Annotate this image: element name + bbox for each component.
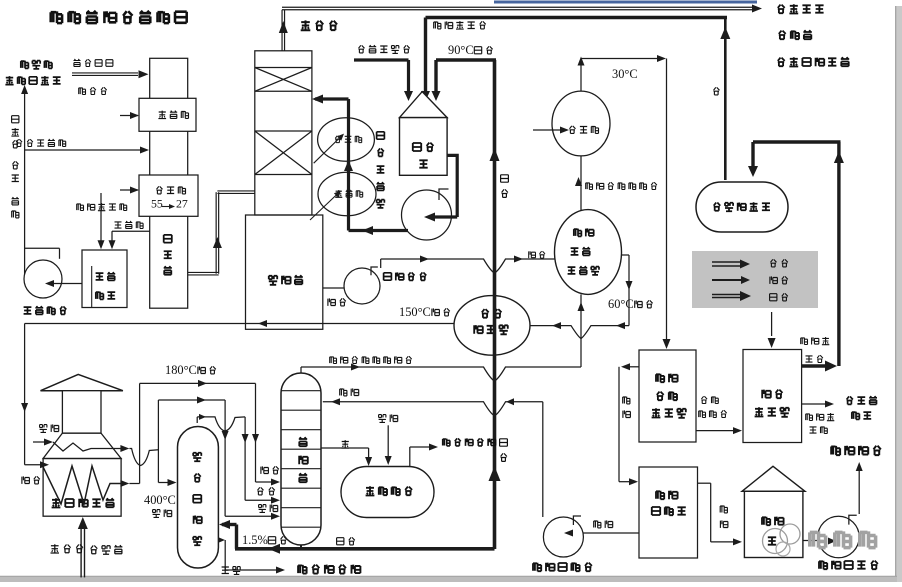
svg-text:400°C: 400°C (144, 493, 176, 507)
svg-text:27: 27 (176, 197, 188, 211)
svg-text:1.5%: 1.5% (242, 533, 268, 547)
svg-text:180°C: 180°C (165, 363, 197, 377)
svg-text:30°C: 30°C (612, 67, 638, 81)
svg-text:55: 55 (151, 197, 163, 211)
svg-text:60°C: 60°C (608, 297, 634, 311)
svg-text:90°C: 90°C (448, 43, 474, 57)
svg-text:150°C: 150°C (399, 305, 431, 319)
